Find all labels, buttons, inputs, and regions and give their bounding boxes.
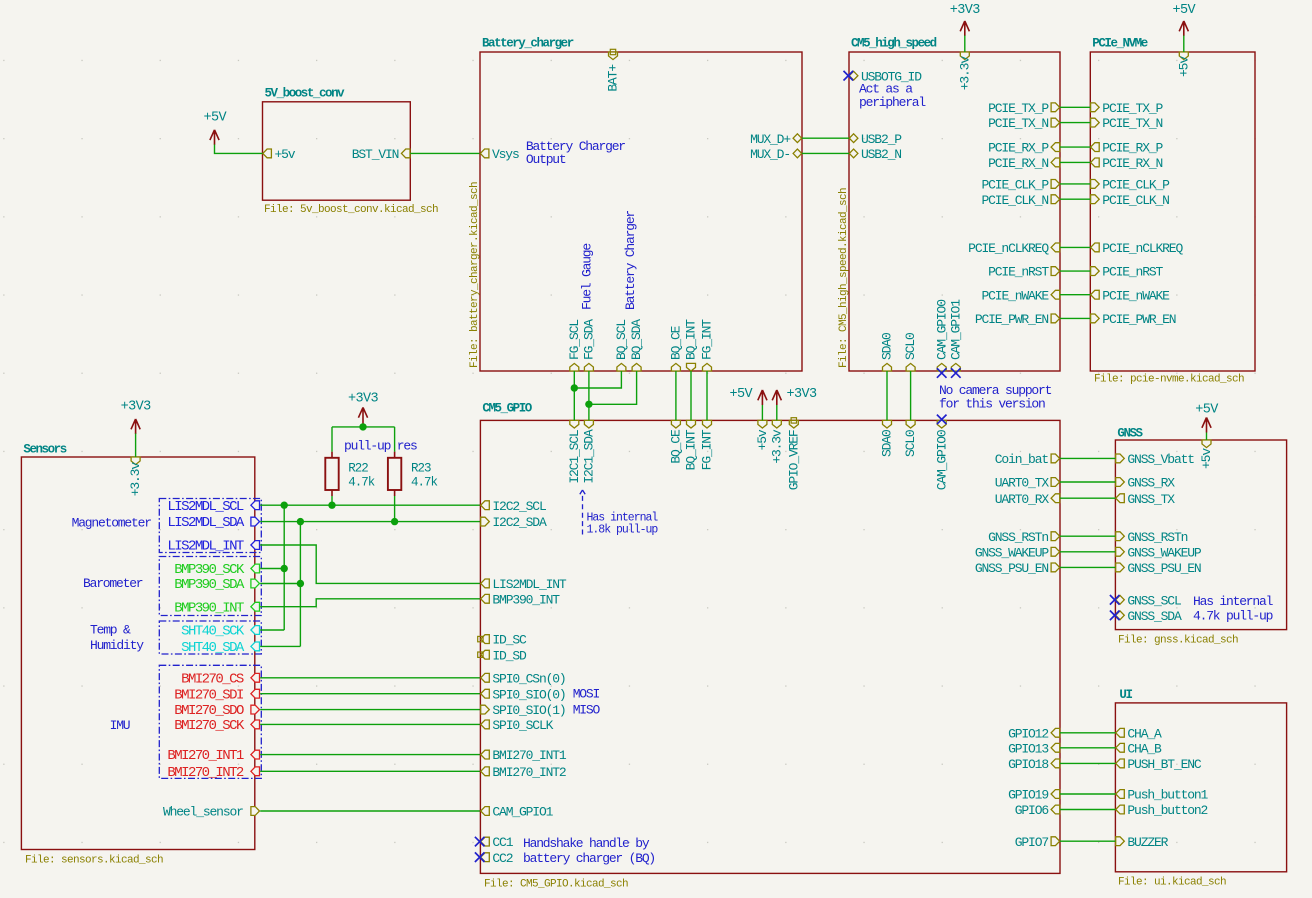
- wire +3V3 to +3.3v pin (Sensors): [135, 434, 137, 458]
- svg-text:GNSS_PSU_EN: GNSS_PSU_EN: [1127, 561, 1201, 576]
- svg-text:BQ_CE: BQ_CE: [669, 325, 684, 360]
- svg-text:CAM_GPIO1: CAM_GPIO1: [492, 805, 553, 820]
- dashed arrow 1.8k pull-up: [579, 490, 586, 535]
- sheet pin BMP390_SCK: [174, 562, 259, 578]
- group box BMI270: [159, 665, 261, 778]
- wire BQ_SDA join: [589, 371, 637, 404]
- svg-text:4.7k: 4.7k: [411, 475, 438, 489]
- wire BMP390_SDA stub: [260, 583, 300, 585]
- sheet pin SPI0_CSn(0): [481, 671, 566, 686]
- group box BMP390: [159, 557, 261, 616]
- wire BST_VIN to Vsys: [410, 152, 480, 154]
- svg-text:BQ_INT: BQ_INT: [684, 319, 699, 360]
- sheet pin BMI270_INT2: [167, 765, 259, 781]
- junction: [391, 518, 398, 525]
- svg-text:MISO: MISO: [573, 703, 601, 718]
- sheet pin BQ_CE: [669, 325, 684, 371]
- sheet pin PCIE_TX_N: [1091, 116, 1163, 131]
- resistor R23: [388, 452, 438, 496]
- wire UART0_TX-GNSS_RX: [1060, 481, 1115, 483]
- wire GPIO6-Push_button2: [1060, 809, 1115, 811]
- wire FG_INT: [706, 371, 708, 420]
- svg-text:File: battery_charger.kicad_sc: File: battery_charger.kicad_sch: [469, 182, 481, 368]
- sheet pin PCIE_RX_P: [1091, 141, 1164, 156]
- wire SHT40_SDA stub: [260, 645, 300, 647]
- sheet pin PCIE_CLK_N: [981, 193, 1059, 208]
- sheet pin BMP390_INT: [481, 592, 561, 607]
- svg-text:CM5_high_speed: CM5_high_speed: [851, 37, 937, 51]
- sheet pin PCIE_nCLKREQ: [968, 241, 1060, 256]
- svg-text:ID_SD: ID_SD: [492, 648, 527, 663]
- svg-text:+3V3: +3V3: [787, 387, 818, 402]
- sheet pin PCIE_CLK_P: [981, 178, 1059, 193]
- note Magnetometer: [72, 516, 152, 531]
- note Barometer: [83, 576, 143, 591]
- wire SHT40_SCK stub: [260, 629, 284, 631]
- hierarchical sheet CM5_high_speed: [838, 37, 1060, 372]
- sheet pin BMI270_SCK: [174, 718, 259, 734]
- sheet pin GNSS_RX: [1116, 476, 1176, 491]
- svg-text:USB2_P: USB2_P: [861, 132, 902, 147]
- sheet pin GNSS_SCL: [1110, 593, 1181, 608]
- hierarchical sheet Battery_charger: [469, 37, 802, 372]
- svg-text:Battery_charger: Battery_charger: [482, 37, 574, 51]
- wire SPI0_SIO0: [260, 693, 480, 695]
- sheet pin SHT40_SDA: [181, 640, 259, 656]
- svg-text:PCIE_RX_N: PCIE_RX_N: [1102, 156, 1162, 171]
- sheet pin FG_INT: [700, 319, 715, 371]
- svg-text:BMP390_INT: BMP390_INT: [492, 592, 560, 607]
- svg-text:GNSS_WAKEUP: GNSS_WAKEUP: [1127, 545, 1202, 560]
- svg-text:R22: R22: [348, 462, 368, 476]
- sheet pin BMI270_INT1: [167, 748, 259, 764]
- svg-text:R23: R23: [411, 462, 431, 476]
- svg-text:FG_INT: FG_INT: [700, 429, 715, 470]
- sheet pin SDA0: [880, 420, 895, 457]
- sheet pin CHA_B: [1116, 741, 1162, 756]
- svg-text:LIS2MDL_SCL: LIS2MDL_SCL: [167, 499, 244, 515]
- svg-text:BUZZER: BUZZER: [1127, 835, 1168, 850]
- svg-text:PCIE_nRST: PCIE_nRST: [988, 265, 1049, 280]
- note Has internal 4.7k pull-up: [1193, 594, 1274, 624]
- svg-text:+5V: +5V: [729, 387, 753, 402]
- sheet pin BQ_CE: [669, 420, 684, 463]
- sheet pin PCIE_RX_P: [988, 141, 1060, 156]
- wire LIS2MDL_INT: [260, 545, 480, 583]
- wire I2C2_SCL: [260, 504, 480, 506]
- svg-text:PCIE_CLK_P: PCIE_CLK_P: [1102, 178, 1170, 193]
- svg-text:CM5_GPIO: CM5_GPIO: [482, 402, 532, 416]
- wire GPIO19-Push_button1: [1060, 793, 1115, 795]
- group box LIS2MDL: [159, 499, 261, 553]
- svg-text:LIS2MDL_INT: LIS2MDL_INT: [492, 577, 567, 592]
- svg-text:File: ui.kicad_sch: File: ui.kicad_sch: [1118, 877, 1226, 889]
- wire SDA0: [886, 371, 888, 420]
- svg-text:peripheral: peripheral: [859, 95, 926, 110]
- svg-text:Wheel_sensor: Wheel_sensor: [163, 805, 243, 820]
- sheet pin I2C1_SDA: [582, 420, 597, 483]
- sheet pin I2C1_SCL: [567, 420, 582, 483]
- wire +5V to +5v pin (PCIe): [1183, 36, 1185, 53]
- sheet pin PCIE_RX_N: [988, 156, 1060, 171]
- wire SCL chain vertical: [283, 505, 285, 630]
- wire +5V to +5v pin (GNSS): [1206, 433, 1208, 441]
- sheet pin GNSS_Vbatt: [1116, 452, 1195, 467]
- sheet pin SCL0: [903, 333, 918, 371]
- svg-text:I2C1_SDA: I2C1_SDA: [582, 429, 597, 484]
- wire PCIE_RX_P: [1060, 146, 1090, 148]
- svg-text:+5v: +5v: [1176, 56, 1191, 77]
- svg-text:+5v: +5v: [1199, 448, 1214, 469]
- sheet pin USB2_P: [849, 132, 902, 147]
- svg-text:Humidity: Humidity: [90, 638, 144, 653]
- sheet pin BMI270_SDI: [174, 687, 259, 703]
- hierarchical sheet 5V_boost_conv: [263, 86, 439, 216]
- sheet pin GPIO13: [1008, 741, 1060, 756]
- svg-text:+3.3v: +3.3v: [769, 429, 784, 464]
- svg-text:BMP390_SCK: BMP390_SCK: [174, 562, 245, 578]
- wire I2C2_SDA: [260, 521, 480, 523]
- wire BQ_CE: [675, 371, 677, 420]
- sheet pin ID_SD: [478, 648, 527, 663]
- power symbol +5V (PCIe_NVMe): [1173, 3, 1197, 36]
- note IMU: [110, 718, 130, 733]
- power symbol +5V (boost input): [203, 110, 227, 145]
- svg-text:5V_boost_conv: 5V_boost_conv: [265, 86, 346, 100]
- svg-text:CAM_GPIO0: CAM_GPIO0: [934, 430, 949, 490]
- hierarchical sheet GNSS: [1115, 427, 1286, 647]
- junction: [297, 580, 304, 587]
- svg-text:BAT+: BAT+: [606, 64, 621, 92]
- wire GPIO7-BUZZER: [1060, 840, 1115, 842]
- power symbol +3V3 (CM5_high_speed): [950, 3, 981, 36]
- wire pull-up rail: [332, 426, 395, 428]
- svg-text:+3.3v: +3.3v: [128, 462, 143, 497]
- sheet pin GPIO19: [1008, 788, 1060, 803]
- svg-text:File: CM5_high_speed.kicad_sch: File: CM5_high_speed.kicad_sch: [838, 188, 850, 368]
- sheet pin LIS2MDL_SDA: [167, 515, 259, 531]
- svg-text:PUSH_BT_ENC: PUSH_BT_ENC: [1127, 757, 1202, 772]
- note Handshake note: [523, 836, 655, 866]
- wire PCIE_nWAKE: [1060, 294, 1090, 296]
- svg-text:PCIE_RX_P: PCIE_RX_P: [988, 141, 1049, 156]
- svg-text:GPIO19: GPIO19: [1008, 788, 1048, 803]
- svg-text:PCIE_CLK_N: PCIE_CLK_N: [981, 193, 1048, 208]
- wire PCIE_RX_N: [1060, 161, 1090, 163]
- wire SPI0_CSn: [260, 677, 480, 679]
- wire R23 bottom wire: [394, 496, 396, 522]
- note Temp & Humidity: [90, 623, 144, 654]
- svg-text:+5V: +5V: [1173, 3, 1197, 18]
- svg-text:File: gnss.kicad_sch: File: gnss.kicad_sch: [1118, 635, 1238, 647]
- sheet pin GPIO_VREF: [786, 418, 801, 491]
- svg-text:Push_button1: Push_button1: [1127, 788, 1208, 803]
- svg-text:CC2: CC2: [492, 851, 512, 866]
- svg-text:File: sensors.kicad_sch: File: sensors.kicad_sch: [25, 855, 163, 867]
- wire PCIE_CLK_N: [1060, 198, 1090, 200]
- svg-text:+5V: +5V: [1195, 402, 1219, 417]
- sheet pin BQ_INT: [684, 319, 699, 371]
- svg-text:+3.3v: +3.3v: [957, 56, 972, 91]
- sheet pin FG_SDA: [582, 319, 597, 371]
- junction: [585, 401, 592, 408]
- svg-text:BQ_SDA: BQ_SDA: [629, 319, 644, 360]
- sheet pin PCIE_PWR_EN: [975, 312, 1060, 327]
- svg-text:SDA0: SDA0: [880, 430, 895, 457]
- svg-text:MUX_D+: MUX_D+: [750, 132, 791, 147]
- svg-text:BMI270_INT1: BMI270_INT1: [167, 748, 244, 764]
- sheet pin +5v: [1199, 440, 1214, 469]
- sheet pin PCIE_nRST: [1091, 265, 1164, 280]
- note Has internal 1.8k pull-up: [587, 512, 659, 537]
- svg-text:PCIE_PWR_EN: PCIE_PWR_EN: [1102, 312, 1176, 327]
- sheet pin UART0_TX: [995, 476, 1060, 491]
- wire CAM_GPIO1: [260, 810, 480, 812]
- wire GPIO12-CHA_A: [1060, 732, 1115, 734]
- svg-text:GNSS_SDA: GNSS_SDA: [1127, 609, 1182, 624]
- sheet pin GNSS_WAKEUP: [1116, 545, 1202, 560]
- hierarchical sheet PCIe_NVMe: [1090, 37, 1255, 386]
- svg-text:BMI270_INT2: BMI270_INT2: [492, 765, 566, 780]
- svg-text:GPIO13: GPIO13: [1008, 741, 1048, 756]
- power symbol +3V3 (CM5_GPIO): [772, 387, 817, 405]
- sheet pin PCIE_nRST: [988, 265, 1060, 280]
- svg-text:battery charger (BQ): battery charger (BQ): [523, 851, 655, 866]
- svg-text:UART0_RX: UART0_RX: [995, 492, 1050, 507]
- svg-text:PCIe_NVMe: PCIe_NVMe: [1092, 37, 1147, 51]
- svg-text:pull-up res: pull-up res: [344, 439, 417, 454]
- svg-text:IMU: IMU: [110, 718, 130, 733]
- svg-text:BST_VIN: BST_VIN: [352, 147, 399, 162]
- sheet pin CHA_A: [1116, 726, 1162, 741]
- wire R22 top wire: [331, 427, 333, 452]
- svg-text:BMP390_SDA: BMP390_SDA: [174, 577, 245, 593]
- wire SPI0_SCLK: [260, 723, 480, 725]
- svg-text:GNSS_RX: GNSS_RX: [1127, 476, 1175, 491]
- sheet pin +5v: [1176, 52, 1191, 77]
- svg-text:UART0_TX: UART0_TX: [995, 476, 1050, 491]
- svg-text:BMI270_SDO: BMI270_SDO: [174, 703, 244, 719]
- sheet pin FG_SCL: [567, 320, 582, 371]
- sheet pin GNSS_PSU_EN: [975, 561, 1060, 576]
- sheet pin BAT+: [606, 49, 621, 91]
- svg-text:SCL0: SCL0: [903, 333, 918, 360]
- svg-text:BMI270_CS: BMI270_CS: [181, 671, 244, 687]
- svg-text:PCIE_nRST: PCIE_nRST: [1102, 265, 1163, 280]
- wire GNSS_PSU_EN: [1060, 566, 1115, 568]
- sheet pin BQ_INT: [684, 420, 699, 470]
- wire GPIO18-PUSH_BT_ENC: [1060, 762, 1115, 764]
- junction: [359, 423, 366, 430]
- hierarchical sheet Sensors: [21, 443, 254, 867]
- sheet pin SPI0_SIO(1): [481, 703, 566, 718]
- svg-text:BMI270_SCK: BMI270_SCK: [174, 718, 245, 734]
- wire BMP390_SCK stub: [260, 568, 284, 570]
- sheet pin CAM_GPIO1: [948, 299, 963, 378]
- power symbol +5V (CM5_GPIO): [729, 387, 767, 405]
- sheet pin BQ_SDA: [629, 319, 644, 371]
- wire PCIE_TX_P: [1060, 106, 1090, 108]
- svg-text:SCL0: SCL0: [903, 430, 918, 457]
- svg-text:FG_SDA: FG_SDA: [582, 319, 597, 360]
- sheet pin PCIE_RX_N: [1091, 156, 1163, 171]
- wire UART0_RX-GNSS_TX: [1060, 497, 1115, 499]
- svg-text:MUX_D-: MUX_D-: [750, 147, 790, 162]
- wire Coin_bat-GNSS_Vbatt: [1060, 457, 1115, 459]
- svg-text:+5v: +5v: [755, 429, 770, 450]
- sheet pin LIS2MDL_INT: [167, 539, 259, 555]
- svg-text:CAM_GPIO0: CAM_GPIO0: [934, 300, 949, 360]
- wire GNSS_RSTn: [1060, 535, 1115, 537]
- svg-text:PCIE_nCLKREQ: PCIE_nCLKREQ: [968, 241, 1049, 256]
- wire +5V to +5v pin: [215, 145, 263, 154]
- svg-text:PCIE_nWAKE: PCIE_nWAKE: [1102, 288, 1170, 303]
- svg-text:PCIE_TX_P: PCIE_TX_P: [1102, 101, 1163, 116]
- sheet pin SPI0_SIO(0): [481, 687, 566, 702]
- wire GPIO13-CHA_B: [1060, 747, 1115, 749]
- svg-text:Sensors: Sensors: [23, 443, 66, 457]
- sheet pin GPIO12: [1008, 726, 1060, 741]
- sheet pin GNSS_SDA: [1110, 609, 1182, 624]
- svg-text:GNSS_TX: GNSS_TX: [1127, 492, 1175, 507]
- svg-text:ID_SC: ID_SC: [492, 633, 527, 648]
- sheet pin PCIE_nWAKE: [981, 288, 1059, 303]
- svg-text:SPI0_SIO(1): SPI0_SIO(1): [492, 703, 565, 718]
- svg-text:CHA_B: CHA_B: [1127, 741, 1162, 756]
- svg-text:SPI0_CSn(0): SPI0_CSn(0): [492, 671, 565, 686]
- svg-text:USB2_N: USB2_N: [861, 147, 901, 162]
- sheet pin PCIE_CLK_N: [1091, 193, 1170, 208]
- wire FG_SDA/I2C1_SDA: [588, 371, 590, 420]
- svg-text:Output: Output: [526, 152, 566, 167]
- svg-text:PCIE_CLK_N: PCIE_CLK_N: [1102, 193, 1169, 208]
- wire PCIE_nCLKREQ: [1060, 246, 1090, 248]
- power symbol +3V3 (Sensors): [121, 400, 152, 435]
- svg-text:Has internal: Has internal: [1193, 594, 1274, 609]
- svg-text:SPI0_SIO(0): SPI0_SIO(0): [492, 687, 565, 702]
- svg-text:BQ_INT: BQ_INT: [684, 429, 699, 470]
- sheet pin SCL0: [903, 420, 918, 457]
- junction: [571, 384, 578, 391]
- wire BQ_SCL join: [574, 371, 621, 388]
- svg-text:Vsys: Vsys: [492, 147, 519, 162]
- svg-text:File: pcie-nvme.kicad_sch: File: pcie-nvme.kicad_sch: [1094, 374, 1244, 386]
- sheet pin CAM_GPIO0: [934, 300, 949, 378]
- svg-text:GNSS_RSTn: GNSS_RSTn: [988, 530, 1048, 545]
- svg-text:MOSI: MOSI: [573, 687, 600, 702]
- sheet pin FG_INT: [700, 420, 715, 470]
- svg-text:Coin_bat: Coin_bat: [995, 452, 1049, 467]
- svg-text:GNSS_WAKEUP: GNSS_WAKEUP: [975, 545, 1050, 560]
- wire SDA chain vertical: [299, 522, 301, 647]
- wire BMI270_INT2: [260, 770, 480, 772]
- svg-text:GPIO12: GPIO12: [1008, 726, 1048, 741]
- svg-text:4.7k pull-up: 4.7k pull-up: [1193, 609, 1273, 624]
- resistor R22: [325, 452, 375, 496]
- junction: [297, 518, 304, 525]
- svg-text:CHA_A: CHA_A: [1127, 726, 1162, 741]
- svg-text:FG_SCL: FG_SCL: [567, 320, 582, 360]
- wire MUX_D+ to USB2_P: [802, 137, 849, 139]
- sheet pin I2C2_SDA: [481, 515, 547, 530]
- sheet pin PCIE_CLK_P: [1091, 178, 1171, 193]
- svg-text:GPIO_VREF: GPIO_VREF: [786, 430, 801, 490]
- sheet pin CAM_GPIO0: [934, 415, 949, 491]
- svg-text:GPIO7: GPIO7: [1015, 835, 1049, 850]
- svg-text:+3V3: +3V3: [348, 391, 379, 406]
- sheet pin PUSH_BT_ENC: [1116, 757, 1202, 772]
- svg-text:GNSS_PSU_EN: GNSS_PSU_EN: [975, 561, 1049, 576]
- svg-text:CC1: CC1: [492, 835, 513, 850]
- sheet pin Coin_bat: [995, 452, 1060, 467]
- svg-text:GNSS_SCL: GNSS_SCL: [1127, 593, 1181, 608]
- sheet pin I2C2_SCL: [481, 499, 546, 514]
- wire +5V stub: [761, 405, 763, 420]
- svg-text:BQ_CE: BQ_CE: [669, 429, 684, 464]
- svg-text:CAM_GPIO1: CAM_GPIO1: [948, 299, 963, 360]
- power symbol +3V3 (pull-ups): [348, 391, 379, 427]
- junction: [328, 502, 335, 509]
- sheet pin Wheel_sensor: [163, 805, 260, 820]
- wire BQ_INT: [690, 371, 692, 420]
- wire MUX_D- to USB2_N: [802, 152, 849, 154]
- svg-text:BQ_SCL: BQ_SCL: [614, 320, 629, 360]
- svg-text:GNSS_Vbatt: GNSS_Vbatt: [1127, 452, 1194, 467]
- svg-text:I2C1_SCL: I2C1_SCL: [567, 430, 582, 484]
- sheet pin PCIE_nWAKE: [1091, 288, 1171, 303]
- svg-text:PCIE_RX_P: PCIE_RX_P: [1102, 141, 1163, 156]
- sheet pin CC2: [475, 851, 513, 866]
- sheet pin CC1: [475, 835, 514, 850]
- svg-text:Push_button2: Push_button2: [1127, 803, 1207, 818]
- svg-text:GNSS_RSTn: GNSS_RSTn: [1127, 530, 1187, 545]
- sheet pin +3.3v: [957, 52, 972, 90]
- sheet pin SHT40_SCK: [181, 624, 259, 640]
- svg-text:GPIO6: GPIO6: [1015, 803, 1049, 818]
- sheet pin BUZZER: [1116, 835, 1169, 850]
- svg-text:Barometer: Barometer: [83, 576, 143, 591]
- svg-text:LIS2MDL_SDA: LIS2MDL_SDA: [167, 515, 245, 531]
- svg-text:PCIE_TX_N: PCIE_TX_N: [1102, 116, 1162, 131]
- sheet pin GNSS_TX: [1116, 492, 1176, 507]
- svg-text:PCIE_nWAKE: PCIE_nWAKE: [981, 288, 1049, 303]
- wire +3V3 to +3.3v pin: [964, 36, 966, 53]
- svg-text:File: CM5_GPIO.kicad_sch: File: CM5_GPIO.kicad_sch: [484, 879, 628, 891]
- svg-text:UI: UI: [1119, 688, 1132, 702]
- wire FG_SCL/I2C1_SCL: [573, 371, 575, 420]
- sheet pin +3.3v: [769, 420, 784, 463]
- wire PCIE_nRST: [1060, 270, 1090, 272]
- svg-text:FG_INT: FG_INT: [700, 319, 715, 360]
- sheet pin +5v: [755, 420, 770, 450]
- sheet pin BMI270_CS: [181, 671, 259, 687]
- sheet pin GNSS_RSTn: [1116, 530, 1188, 545]
- svg-text:+3V3: +3V3: [121, 400, 152, 415]
- sheet pin UART0_RX: [995, 492, 1060, 507]
- junction: [281, 502, 288, 509]
- svg-text:File: 5v_boost_conv.kicad_sch: File: 5v_boost_conv.kicad_sch: [264, 204, 438, 216]
- sheet pin PCIE_TX_P: [1091, 101, 1164, 116]
- sheet pin MUX_D-: [750, 147, 802, 162]
- wire SPI0_SIO1: [260, 709, 480, 711]
- svg-text:PCIE_TX_P: PCIE_TX_P: [988, 101, 1049, 116]
- svg-text:Fuel Gauge: Fuel Gauge: [580, 244, 595, 310]
- wire PCIE_CLK_P: [1060, 183, 1090, 185]
- sheet pin Push_button1: [1116, 788, 1209, 803]
- sheet pin PCIE_TX_P: [988, 101, 1060, 116]
- sheet pin USB2_N: [849, 147, 901, 162]
- svg-text:BMI270_SDI: BMI270_SDI: [174, 687, 243, 703]
